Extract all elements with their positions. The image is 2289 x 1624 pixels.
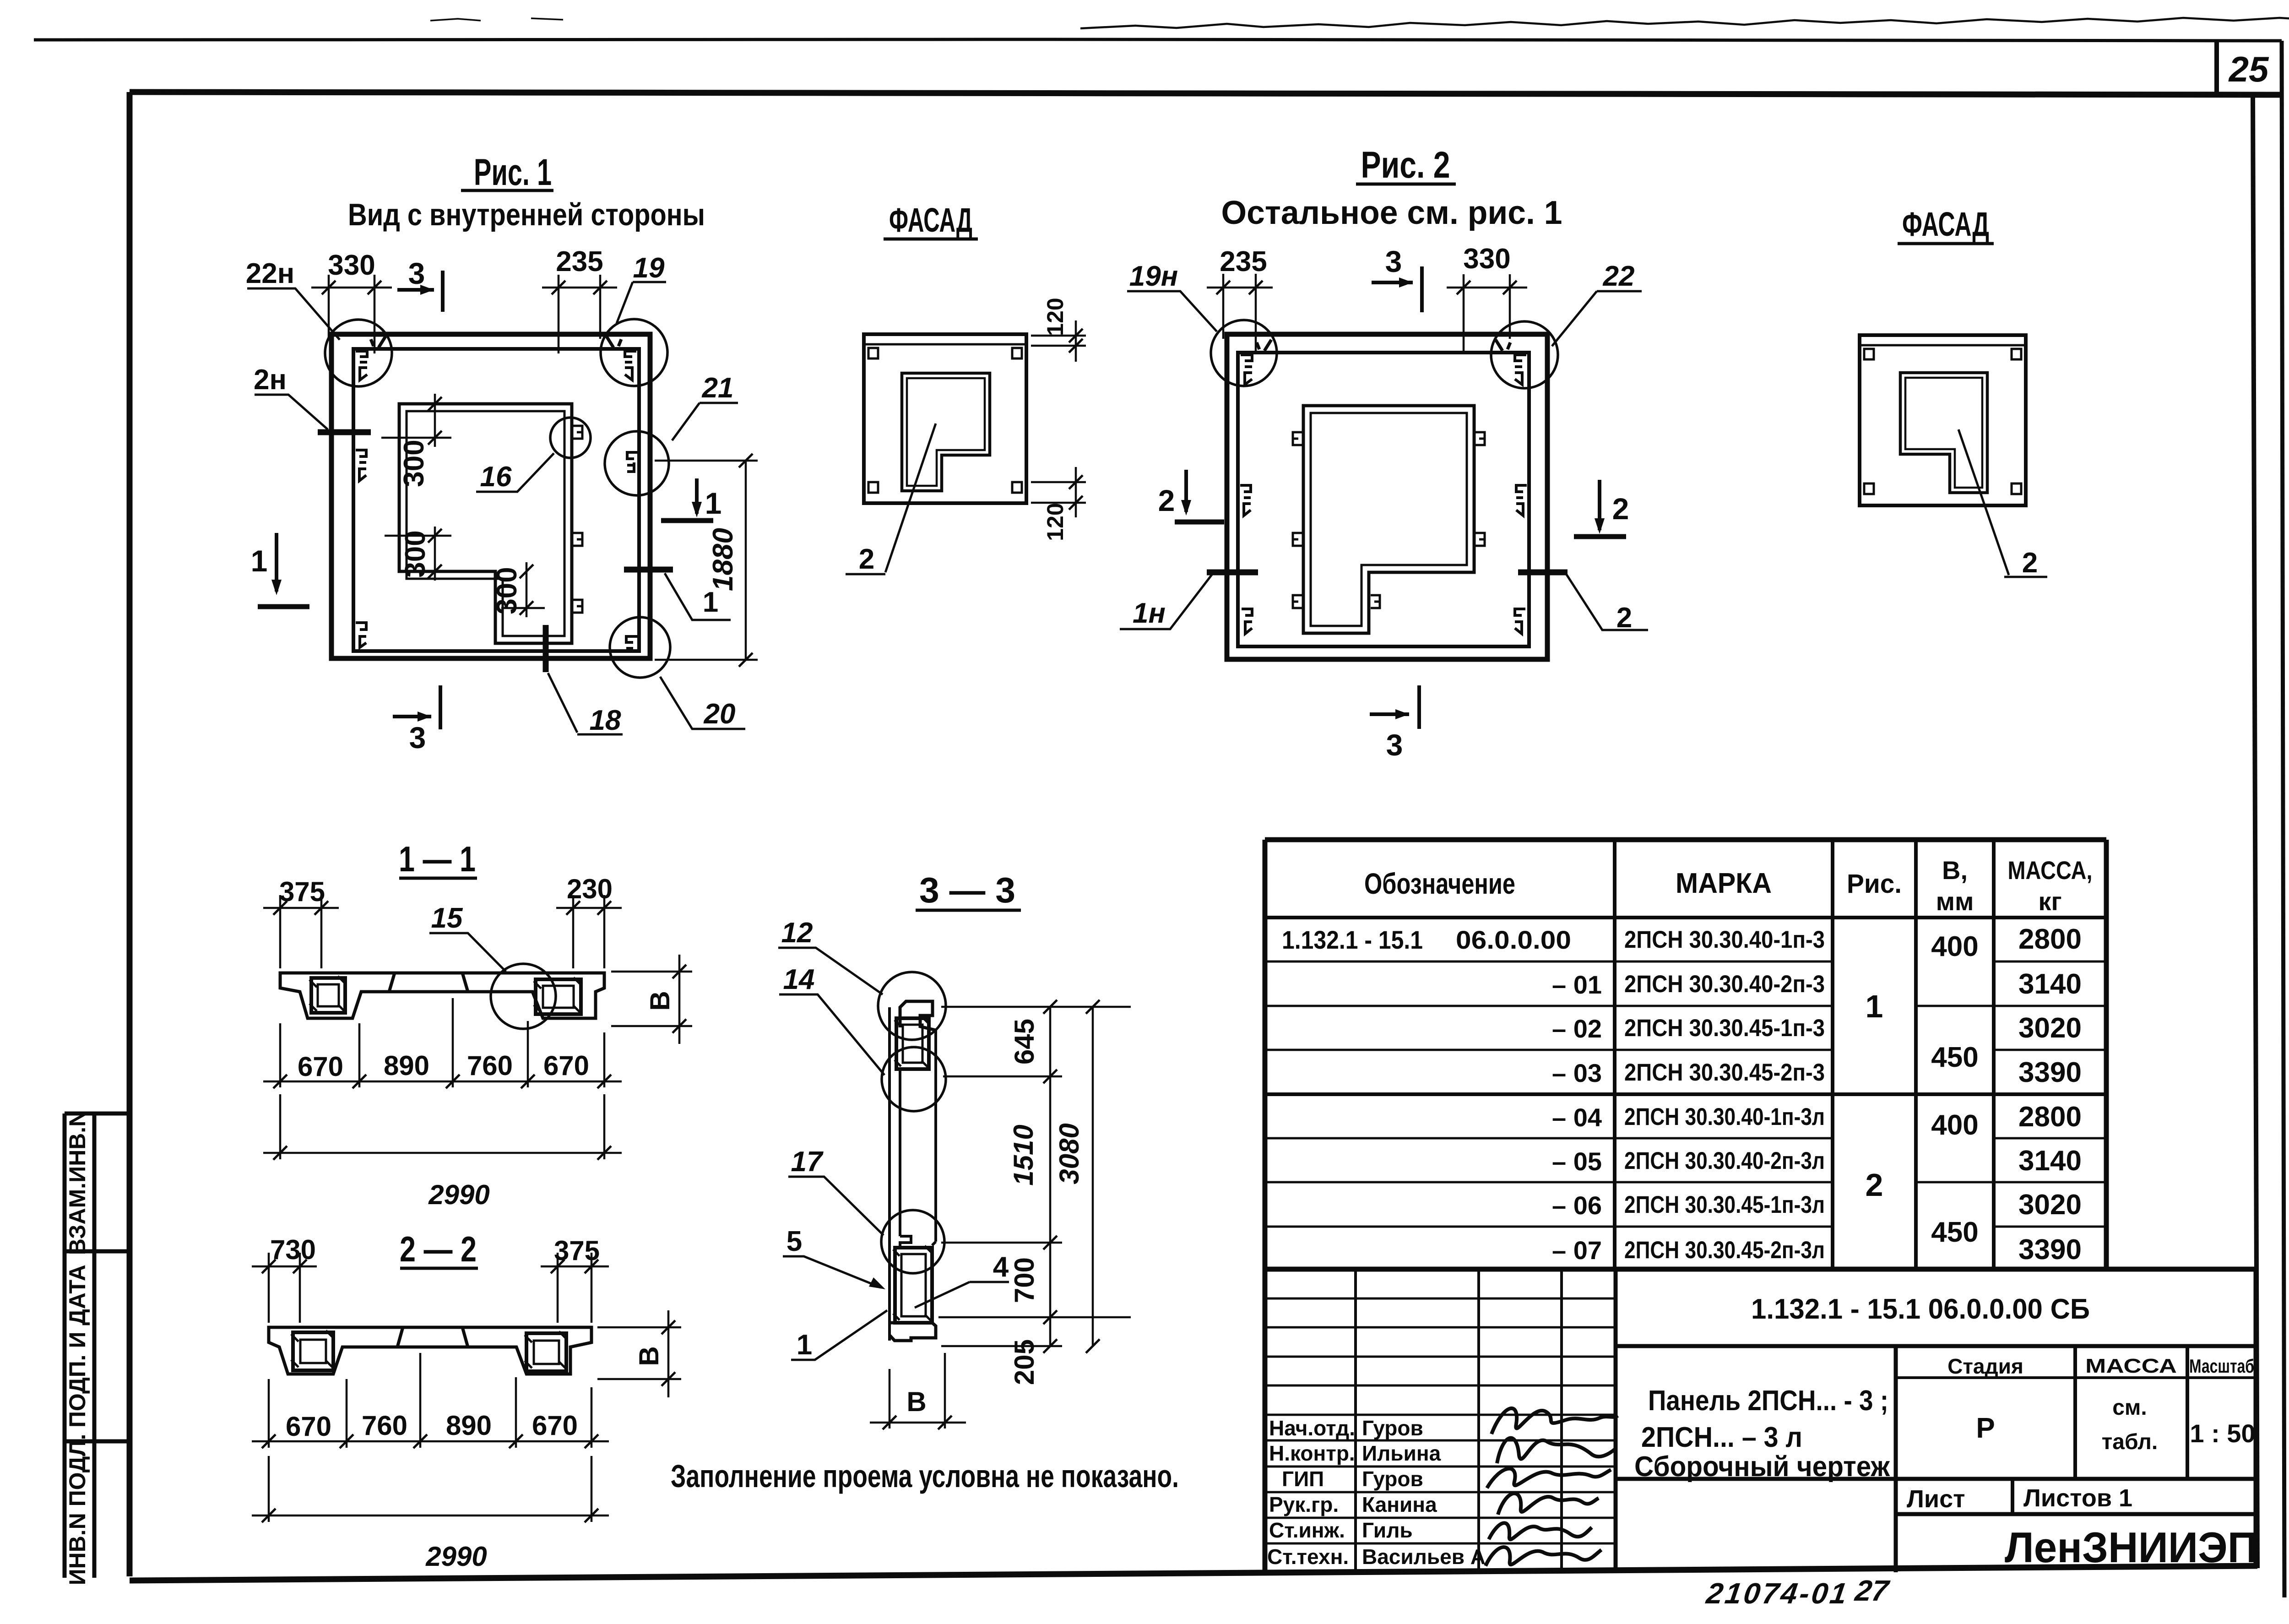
svg-text:2: 2 [2022, 547, 2038, 579]
svg-text:МАССА: МАССА [2085, 1355, 2177, 1377]
TABLE : specification table [1265, 840, 2106, 1271]
fasad1 opening inner [907, 378, 985, 486]
svg-text:1: 1 [705, 486, 722, 520]
svg-text:2ПСН 30.30.45-1п-3л: 2ПСН 30.30.45-1п-3л [1624, 1191, 1825, 1218]
svg-text:645: 645 [1009, 1019, 1040, 1065]
sec33 dim 645 [941, 1007, 1131, 1076]
svg-text:2: 2 [1866, 1167, 1883, 1203]
svg-text:В: В [634, 1346, 664, 1366]
sec22 dim 730 [252, 1253, 317, 1323]
frame top border [130, 92, 2282, 95]
fig2 tab right-mid [1516, 485, 1527, 516]
svg-text:3080: 3080 [1054, 1123, 1085, 1184]
titleblock signature names [1362, 1416, 1486, 1569]
sec33 dim 3080 [1092, 1007, 1094, 1346]
svg-text:МАССА,: МАССА, [2008, 856, 2093, 885]
fasad2 corner squares [1864, 349, 1874, 359]
svg-text:Обозначение: Обозначение [1364, 867, 1515, 900]
svg-text:300: 300 [400, 530, 431, 577]
svg-text:120: 120 [1042, 298, 1068, 336]
fig2 tick 1н left edge [1207, 570, 1258, 576]
svg-text:Масштаб: Масштаб [2189, 1355, 2254, 1377]
svg-text:Стадия: Стадия [1947, 1354, 2023, 1378]
FIG2 : Рис.2 [1120, 144, 1648, 762]
svg-text:Рис.: Рис. [1847, 869, 1902, 899]
sec33 circle top1 [878, 972, 946, 1040]
table col5 масса values [2018, 923, 2082, 1266]
sec33 circle lower [881, 1210, 944, 1273]
svg-text:06.0.0.00: 06.0.0.00 [1456, 925, 1571, 954]
svg-text:21: 21 [702, 372, 734, 404]
svg-text:3140: 3140 [2018, 1145, 2082, 1177]
fasad1 corner squares [868, 348, 878, 358]
titleblock signatures scribbles [1486, 1408, 1618, 1566]
svg-text:670: 670 [298, 1051, 343, 1082]
fig1 dim 235 [542, 275, 617, 353]
top ruled line [34, 39, 2282, 41]
svg-text:1510: 1510 [1008, 1124, 1039, 1185]
svg-text:730: 730 [270, 1234, 316, 1265]
fasad2 opening outer [1900, 373, 1987, 493]
svg-text:760: 760 [362, 1410, 407, 1441]
titleblock designation cell [1614, 1269, 1618, 1572]
fig2 bracket bottom-right [1515, 609, 1525, 634]
fig1 tab left-mid [356, 450, 366, 481]
sec33 dim texts [906, 1019, 1085, 1417]
svg-text:400: 400 [1931, 1109, 1978, 1141]
svg-text:Панель 2ПСН... - 3 ;: Панель 2ПСН... - 3 ; [1648, 1385, 1888, 1417]
fig1 opening tabs right edge [573, 426, 582, 439]
svg-text:Ильина: Ильина [1362, 1441, 1441, 1465]
svg-text:450: 450 [1931, 1217, 1978, 1248]
svg-text:15: 15 [431, 902, 463, 934]
fig2 detail circle top-left [1211, 320, 1277, 386]
svg-text:3: 3 [1385, 244, 1402, 278]
fig2 bracket bottom-left [1242, 609, 1252, 634]
svg-text:400: 400 [1931, 931, 1978, 962]
sheet number box "25" [2214, 42, 2219, 95]
titleblock right zone lines [1894, 1346, 1898, 1572]
sec11 dim B right [611, 955, 692, 1044]
svg-text:670: 670 [532, 1410, 578, 1441]
sec11 rebar square left [311, 978, 345, 1013]
frame right outer border [2282, 41, 2284, 1597]
svg-text:– 07: – 07 [1552, 1236, 1602, 1265]
fig2 dim 330 [1447, 274, 1527, 353]
svg-text:230: 230 [567, 874, 613, 904]
sec33 shaft [890, 1007, 936, 1341]
fasad1 dim 120 top [1031, 320, 1086, 362]
fig1 panel inner rect [353, 349, 639, 651]
svg-text:17: 17 [791, 1146, 824, 1178]
svg-text:1.132.1 - 15.1: 1.132.1 - 15.1 [1282, 925, 1423, 954]
sec11 rebar square right [536, 979, 581, 1014]
svg-text:ФАСАД: ФАСАД [1902, 205, 1989, 243]
fig1 corner bracket top-left [356, 351, 367, 380]
svg-text:205: 205 [1009, 1339, 1040, 1385]
svg-text:1: 1 [703, 587, 718, 618]
sec11 dim 230 [556, 895, 622, 968]
svg-text:19н: 19н [1129, 261, 1178, 292]
sec22 rebar square left [293, 1332, 333, 1370]
svg-text:22н: 22н [246, 258, 294, 289]
table outer border [1265, 840, 2106, 1271]
table col4 B values [1931, 931, 1978, 1248]
svg-text:27: 27 [1853, 1574, 1892, 1607]
svg-text:2н: 2н [254, 364, 287, 396]
frame left border [127, 92, 133, 1576]
sec11 dim texts [279, 874, 675, 1210]
svg-text:Гуров: Гуров [1362, 1467, 1423, 1491]
svg-text:3: 3 [1386, 728, 1403, 762]
svg-text:21074-01: 21074-01 [1704, 1577, 1851, 1610]
fig1 dim 330 [311, 275, 392, 353]
table col2 марка rows [1624, 926, 1825, 1264]
sec33 top cap [900, 1001, 936, 1030]
svg-text:Васильев А: Васильев А [1362, 1545, 1486, 1569]
fig2 dim 235 [1207, 274, 1273, 353]
fig1 tick 2н on left edge [318, 429, 371, 435]
fig1 detail circle right-mid [605, 431, 669, 495]
FIG1 : Рис.1 Вид с внутренней стороны [246, 152, 758, 755]
svg-text:1 : 50: 1 : 50 [2190, 1419, 2255, 1448]
svg-text:Остальное см. рис. 1: Остальное см. рис. 1 [1221, 195, 1562, 231]
fig1 opening outer [399, 404, 572, 643]
svg-text:В,: В, [1942, 856, 1968, 885]
svg-text:Р: Р [1976, 1412, 1995, 1444]
svg-text:2ПСН 30.30.40-1п-3л: 2ПСН 30.30.40-1п-3л [1624, 1103, 1825, 1130]
fasad1 dim 120 bottom [1031, 467, 1086, 517]
table header bottom [1265, 916, 2106, 919]
svg-text:Рис. 2: Рис. 2 [1361, 144, 1450, 186]
svg-text:890: 890 [446, 1410, 492, 1441]
svg-text:1880: 1880 [707, 528, 739, 591]
fig1 dim 300 #2 [385, 527, 451, 581]
svg-text:2ПСН 30.30.45-2п-3: 2ПСН 30.30.45-2п-3 [1624, 1059, 1825, 1086]
svg-text:– 05: – 05 [1552, 1147, 1602, 1176]
svg-text:МАРКА: МАРКА [1676, 868, 1772, 899]
titleblock signature columns [1356, 1269, 1562, 1572]
svg-text:16: 16 [480, 461, 512, 493]
svg-text:В: В [645, 991, 675, 1010]
fig1 tick 1 on right edge [624, 567, 673, 573]
svg-text:2ПСН 30.30.40-2п-3л: 2ПСН 30.30.40-2п-3л [1624, 1147, 1825, 1174]
svg-text:670: 670 [286, 1411, 331, 1442]
svg-text:18: 18 [590, 705, 621, 736]
fig1 dim 300 #3 [501, 562, 545, 617]
svg-text:3020: 3020 [2018, 1189, 2082, 1221]
sec33 circle top2 [882, 1047, 946, 1111]
svg-text:25: 25 [2228, 49, 2269, 89]
svg-text:120: 120 [1042, 503, 1068, 541]
sec22 body outline [269, 1327, 591, 1374]
svg-text:ФАСАД: ФАСАД [889, 201, 972, 239]
table col3 рис values [1866, 989, 1883, 1203]
svg-text:2800: 2800 [2018, 1101, 2082, 1133]
svg-text:– 06: – 06 [1552, 1191, 1602, 1220]
svg-text:ЛенЗНИИЭП: ЛенЗНИИЭП [2005, 1523, 2257, 1571]
fig1 detail circle small near 16 [550, 418, 591, 458]
svg-text:Рук.гр.: Рук.гр. [1269, 1493, 1339, 1516]
sec11 dim 375 [263, 895, 339, 968]
fig1 detail circle top-right [601, 319, 667, 386]
svg-text:450: 450 [1931, 1042, 1978, 1073]
sec33 upper rebar box [896, 1018, 929, 1069]
svg-text:1н: 1н [1133, 597, 1166, 629]
svg-text:Н.контр.: Н.контр. [1269, 1441, 1355, 1465]
svg-text:Лист: Лист [1907, 1485, 1965, 1513]
svg-text:22: 22 [1603, 261, 1635, 292]
svg-text:700: 700 [1009, 1257, 1040, 1303]
sec33 dim 1510 [1049, 1076, 1052, 1243]
fasad2 outer square [1860, 335, 2026, 505]
svg-text:– 04: – 04 [1552, 1103, 1602, 1132]
fig2 tick 2 right edge [1518, 570, 1568, 576]
fasad1 outer square [864, 334, 1026, 503]
svg-text:Листов 1: Листов 1 [2023, 1484, 2132, 1512]
titleblock outer [1265, 1267, 2256, 1272]
TITLEBLOCK : stamp [1265, 1269, 2257, 1572]
SEC11 : section 1-1 [263, 839, 692, 1210]
svg-text:330: 330 [1463, 243, 1510, 275]
svg-text:5: 5 [787, 1226, 802, 1257]
svg-text:Гиль: Гиль [1362, 1518, 1413, 1542]
sec33 dim 700 [938, 1243, 1131, 1317]
svg-text:кг: кг [2038, 887, 2061, 916]
fasad1 top double line [864, 343, 1026, 346]
fig2 corner bracket top-right [1515, 355, 1526, 385]
svg-text:1.132.1 - 15.1 06.0.0.00 СБ: 1.132.1 - 15.1 06.0.0.00 СБ [1751, 1293, 2090, 1325]
svg-text:2990: 2990 [425, 1541, 487, 1572]
svg-text:2ПСН 30.30.40-2п-3: 2ПСН 30.30.40-2п-3 [1624, 971, 1825, 998]
svg-text:375: 375 [554, 1235, 600, 1266]
fig1 detail circle bottom-right [610, 617, 670, 678]
fasad2 opening inner [1905, 378, 1982, 488]
fig2 dim texts [1220, 243, 1510, 277]
svg-text:Гуров: Гуров [1362, 1416, 1423, 1440]
titleblock signature rows lower [1265, 1415, 1616, 1543]
svg-text:Нач.отд.: Нач.отд. [1269, 1416, 1355, 1440]
frame bottom border [130, 1566, 2257, 1581]
svg-text:2ПСН 30.30.45-1п-3: 2ПСН 30.30.45-1п-3 [1624, 1015, 1825, 1042]
svg-text:3: 3 [409, 721, 426, 755]
svg-text:3 — 3: 3 — 3 [919, 870, 1015, 910]
svg-text:Вид с внутренней стороны: Вид с внутренней стороны [348, 197, 705, 232]
sec22 dim 2990 [252, 1456, 609, 1522]
sidebar vertical labels [65, 1110, 90, 1586]
titleblock signature rows upper [1265, 1298, 1616, 1385]
svg-text:3390: 3390 [2018, 1057, 2082, 1088]
svg-text:1 — 1: 1 — 1 [399, 839, 476, 879]
fig1 opening inner [407, 411, 564, 636]
sec11 joint circle [491, 964, 556, 1029]
fig1 detail circle top-left [325, 320, 392, 386]
fig1 corner bracket top-right [625, 351, 636, 380]
svg-text:2: 2 [859, 543, 874, 575]
svg-text:Ст.инж.: Ст.инж. [1269, 1518, 1345, 1542]
svg-text:2 — 2: 2 — 2 [400, 1229, 477, 1269]
svg-text:3140: 3140 [2018, 968, 2082, 1000]
svg-text:3020: 3020 [2018, 1012, 2082, 1044]
fig2 opening inner [1311, 413, 1467, 626]
svg-text:мм: мм [1936, 887, 1974, 916]
svg-text:2ПСН 30.30.40-1п-3: 2ПСН 30.30.40-1п-3 [1624, 926, 1825, 953]
svg-text:19: 19 [633, 252, 665, 284]
sec11 chain dims [263, 998, 622, 1087]
sec22 rebar square right [526, 1333, 566, 1371]
svg-text:300: 300 [491, 567, 523, 614]
svg-text:1: 1 [797, 1329, 812, 1361]
fig2 opening tabs [1293, 432, 1302, 445]
svg-text:20: 20 [704, 698, 736, 730]
fig1 bracket right-mid in circle [627, 452, 638, 472]
table col1 rows [1282, 925, 1602, 1265]
svg-text:2800: 2800 [2018, 923, 2082, 955]
svg-text:4: 4 [993, 1251, 1009, 1283]
svg-text:1: 1 [251, 544, 268, 578]
svg-text:2990: 2990 [428, 1179, 489, 1210]
svg-text:3: 3 [408, 256, 425, 290]
sidebar column [65, 1113, 130, 1578]
sec22 dim 375 [541, 1253, 609, 1323]
table row lines [1265, 961, 2106, 963]
svg-text:– 02: – 02 [1552, 1014, 1602, 1043]
fig1 panel outer rect [331, 334, 650, 658]
FASAD2 [1860, 205, 2047, 579]
svg-text:375: 375 [279, 876, 325, 907]
fig1 bracket bottom-right [626, 636, 637, 648]
svg-text:табл.: табл. [2102, 1430, 2158, 1454]
svg-text:ГИП: ГИП [1282, 1467, 1324, 1491]
sec22 dim texts [270, 1234, 664, 1572]
fig1 dim 1880 [655, 461, 758, 660]
svg-text:Сборочный чертеж: Сборочный чертеж [1634, 1451, 1890, 1483]
svg-text:2ПСН 30.30.45-2п-3л: 2ПСН 30.30.45-2п-3л [1624, 1237, 1825, 1264]
table column lines [1615, 840, 1994, 1271]
svg-text:Ст.техн.: Ст.техн. [1267, 1545, 1349, 1569]
sec11 body outline [280, 973, 604, 1018]
svg-text:2: 2 [1158, 483, 1175, 517]
SEC22 : section 2-2 [252, 1229, 681, 1572]
fig1 dim 300 #1 [381, 394, 451, 447]
table header texts [1364, 867, 1902, 900]
fig2 tab left-mid [1240, 485, 1251, 516]
svg-text:Рис. 1: Рис. 1 [474, 152, 552, 193]
svg-text:890: 890 [384, 1050, 429, 1081]
fig2 panel outer rect [1227, 334, 1547, 659]
sec22 chain dims [252, 1353, 609, 1448]
svg-text:ИНВ.N ПОДЛ.: ИНВ.N ПОДЛ. [65, 1434, 90, 1586]
svg-text:330: 330 [328, 250, 375, 281]
svg-text:В: В [906, 1386, 926, 1417]
svg-text:235: 235 [556, 246, 603, 277]
svg-text:– 01: – 01 [1552, 970, 1602, 999]
sec33 bottom cap [890, 1323, 936, 1341]
svg-text:2: 2 [1612, 492, 1629, 526]
svg-text:см.: см. [2112, 1396, 2147, 1420]
SEC33 : section 3-3 [671, 870, 1179, 1494]
titleblock signature labels [1267, 1416, 1355, 1569]
svg-text:ПОДП. И ДАТА: ПОДП. И ДАТА [65, 1265, 90, 1428]
fasad1 opening outer [902, 373, 990, 491]
sec33 mid joint [900, 1236, 936, 1248]
sec33 dim B bottom [870, 1353, 966, 1428]
sec33 dim 205 [941, 1317, 1062, 1346]
svg-text:670: 670 [543, 1050, 589, 1081]
svg-text:2ПСН... – 3 л: 2ПСН... – 3 л [1641, 1422, 1802, 1453]
svg-text:760: 760 [467, 1050, 513, 1081]
svg-text:14: 14 [783, 964, 815, 995]
svg-text:Канина: Канина [1362, 1493, 1437, 1516]
fig2 detail circle top-right [1491, 321, 1558, 388]
frame right inner border [2253, 95, 2257, 1568]
svg-text:ВЗАМ.ИНВ.N: ВЗАМ.ИНВ.N [65, 1110, 90, 1255]
svg-text:12: 12 [781, 917, 813, 949]
wavy paper edge top right [1080, 17, 2289, 28]
svg-text:1: 1 [1866, 989, 1883, 1024]
fig2 panel inner rect [1238, 353, 1529, 646]
sec33 lower rebar box [895, 1248, 932, 1323]
fig1 tab bottom-left [356, 623, 366, 647]
svg-text:Заполнение проема условна н: Заполнение проема условна не показано. [671, 1458, 1179, 1494]
FASAD1 [846, 201, 1086, 575]
svg-text:300: 300 [398, 440, 430, 487]
svg-text:235: 235 [1220, 246, 1267, 277]
svg-text:– 03: – 03 [1552, 1059, 1602, 1087]
fasad2 top double line [1860, 344, 2026, 347]
fig2 corner bracket top-left [1241, 355, 1252, 385]
svg-text:3390: 3390 [2018, 1234, 2082, 1266]
fig1 dim texts [328, 246, 739, 614]
sec22 dim B right [597, 1310, 681, 1397]
fig2 opening outer [1303, 406, 1474, 633]
sec11 dim 2990 [263, 1094, 622, 1159]
fig1 tick 18 on bottom edge [543, 625, 549, 672]
